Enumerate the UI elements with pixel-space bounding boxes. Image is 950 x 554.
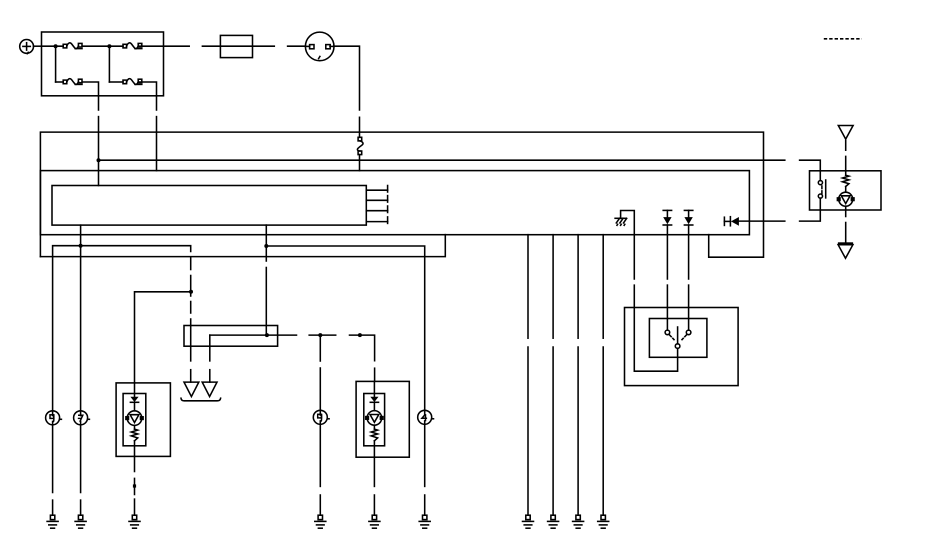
lamp L4 <box>367 411 382 426</box>
wire conn4 to ground <box>424 424 426 486</box>
wire D1 down <box>666 225 668 279</box>
vertical drop fuse box column 1 <box>55 46 57 82</box>
wire W5 from box C <box>265 225 267 261</box>
wire W1 lower segment <box>98 117 100 186</box>
relay plunger <box>677 327 679 344</box>
relay inner box <box>649 319 707 358</box>
ground underline <box>181 398 221 401</box>
page arrow top right <box>838 126 853 140</box>
fuse F1 <box>63 44 67 48</box>
junction dot lamp2 wire <box>318 333 322 337</box>
fuse F3 <box>63 80 67 84</box>
relay common contact <box>675 344 680 349</box>
wire diode to lamp 2 <box>373 402 375 410</box>
terminal dot lamp box 1 wire <box>133 484 136 487</box>
control unit box C <box>52 186 366 226</box>
ground G1 <box>50 515 54 519</box>
lamp box 1 inner <box>123 394 146 446</box>
wire W3 segment <box>359 117 361 137</box>
wire to lamp2 segment 1 <box>309 334 336 336</box>
ground G9 <box>576 515 580 519</box>
wire to lamp2 segment 2 <box>350 335 375 361</box>
battery B1 positive terminal <box>20 40 34 54</box>
diode D3 terminal tick <box>723 217 725 225</box>
ground G7 <box>526 515 530 519</box>
vertical drop fuse box column 2 <box>108 46 110 82</box>
wire inside connector box <box>210 334 297 336</box>
wire D3 right segment <box>800 198 821 221</box>
wire to fuse F4 <box>109 81 123 83</box>
gauge assembly box A outline <box>40 132 763 257</box>
fuse box <box>42 32 164 96</box>
wire lamp to resistor 1 <box>134 425 136 429</box>
connector circle 4 <box>418 410 432 424</box>
relay outer box <box>625 308 739 386</box>
wire lamp to resistor 2 <box>373 425 375 429</box>
wire D1 drop to relay <box>666 285 668 330</box>
wire W2 upper segment <box>156 96 158 110</box>
wire relay drop from chassis <box>634 285 677 371</box>
wire lamp box 2 exit <box>373 441 375 457</box>
junction dot B <box>107 44 111 48</box>
junction dot lamp2 wire 2 <box>358 333 362 337</box>
wire lamp box 1 exit <box>134 441 136 457</box>
wire W2 lower segment <box>156 117 158 171</box>
wire D3 to seat belt switch <box>739 220 785 222</box>
wire box B drop 2 <box>552 235 554 339</box>
relay contact left <box>665 330 670 335</box>
wire into lamp 1 <box>134 383 136 397</box>
ground G8 <box>551 515 555 519</box>
wire lamp box 2 to ground <box>373 457 375 486</box>
wire D2 down <box>688 225 690 279</box>
diode D1 <box>663 209 671 211</box>
junction dot A <box>54 44 58 48</box>
wire F1 to F2 <box>82 45 123 47</box>
wire W6 dashed upper <box>190 258 192 270</box>
wire to ignition switch <box>288 45 306 47</box>
resistor R3 <box>131 429 137 441</box>
wire F4 output <box>138 82 156 96</box>
ground G10 <box>601 515 605 519</box>
ground G6 <box>423 515 427 519</box>
lamp L3 <box>127 411 142 426</box>
chassis ground inside box B <box>615 217 626 219</box>
wire diode to lamp 1 <box>134 402 136 411</box>
wire lamp L2 down <box>845 206 847 216</box>
wire fuse box top feed <box>42 45 64 47</box>
wire W8 to connector 3 <box>319 335 321 361</box>
pin 3 of box C <box>366 210 387 212</box>
ground triangle T1 <box>184 382 199 397</box>
connector circle 1 <box>46 411 60 425</box>
connector box <box>184 326 278 347</box>
wire W4 from box C <box>80 225 82 411</box>
connector circle 2 <box>74 411 88 425</box>
diode D2 <box>684 209 692 211</box>
wire F3 output <box>82 82 98 96</box>
wire battery to fuse box <box>34 45 42 47</box>
connector circle 3 <box>313 410 327 424</box>
wire R2 to lamp <box>845 187 847 193</box>
wire W3 to box B <box>359 155 361 171</box>
ground G2 <box>78 515 82 519</box>
relay contact right <box>686 330 691 335</box>
wire conn1 to ground <box>52 425 54 493</box>
wire lamp1 feed horizontal <box>135 292 191 383</box>
lamp box 2 outer <box>356 381 409 457</box>
wire to fuse F3 <box>56 81 64 83</box>
ground G3 <box>132 515 136 519</box>
dashed note line <box>824 38 862 40</box>
pin 4 of box C <box>366 221 387 223</box>
junction dot W5 <box>264 244 268 248</box>
diode D5 lamp box 2 <box>370 397 378 402</box>
wire ignition switch output <box>334 46 360 110</box>
wire W6 through connector box <box>190 326 192 347</box>
diode D3 left-pointing <box>724 220 730 222</box>
seat belt switch contacts <box>818 181 822 185</box>
wire W7 from connector box <box>209 335 211 361</box>
inner assembly box B <box>40 171 749 235</box>
right bus wire <box>266 246 424 411</box>
lamp box 1 outer <box>116 383 170 457</box>
ground G4 <box>318 515 322 519</box>
pin 2 of box C <box>366 199 387 201</box>
wire box B drop 3 <box>577 235 579 339</box>
junction dot W4 <box>79 244 83 248</box>
left bus wire <box>53 246 191 411</box>
wire conn2 to ground <box>80 425 82 493</box>
page arrow bottom right <box>838 242 853 244</box>
wire F2 to box edge <box>138 45 189 47</box>
wire D2 drop to relay <box>688 285 690 330</box>
pin 1 of box C <box>366 189 387 191</box>
wire box B drop 1 <box>527 235 529 339</box>
wire W1 upper segment <box>98 96 100 110</box>
seat belt switch box <box>810 171 882 210</box>
wire bus y160 <box>99 159 785 161</box>
wire bus y160 right segment <box>800 160 821 180</box>
ground triangle T2 <box>202 382 217 397</box>
ignition switch SW1 <box>305 32 334 61</box>
wire into lamp 2 <box>373 381 375 396</box>
dashed stem top arrow <box>845 141 847 151</box>
junction dot W6 <box>189 290 193 294</box>
diode D4 lamp box 1 <box>130 397 138 402</box>
wire chassis ground to relay drop <box>621 211 635 280</box>
ground G5 <box>372 515 376 519</box>
wire conn3 to ground <box>319 424 321 486</box>
wire lamp2 feed <box>374 368 376 381</box>
resistor R4 <box>371 429 377 441</box>
relay actuator dashes <box>670 335 672 337</box>
wire lamp box 1 to ground <box>134 456 136 471</box>
lamp box 2 inner <box>364 394 385 446</box>
fuse F2 <box>123 44 127 48</box>
junction dot connector box <box>265 333 269 337</box>
inline fuse F5 case <box>220 35 252 57</box>
seat belt warning lamp L2 <box>839 192 853 206</box>
circuit breaker CB1 <box>358 137 362 141</box>
resistor R2 seat belt unit <box>845 171 847 175</box>
fuse F4 <box>123 80 127 84</box>
wire to inline fuse <box>202 45 274 47</box>
wire box B drop 4 <box>602 235 604 339</box>
junction dot W1 <box>97 158 101 162</box>
